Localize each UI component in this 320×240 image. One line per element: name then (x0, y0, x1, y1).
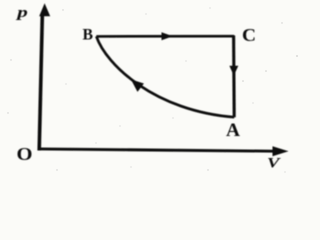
V axis arrowhead (273, 146, 289, 156)
svg-text:p: p (14, 5, 27, 21)
V axis (horizontal axis line) (39, 149, 275, 151)
curve A to B (isotherm-like curve) (96, 36, 234, 117)
p axis (vertical axis line) (39, 16, 42, 151)
svg-text:A: A (226, 121, 241, 141)
svg-text:C: C (242, 25, 256, 45)
arrow on curve pointing toward B (131, 79, 144, 92)
svg-text:B: B (83, 27, 94, 44)
scan speckles (decorative noise) (7, 7, 298, 172)
p axis arrowhead (39, 3, 50, 16)
arrow on B-C line (162, 32, 173, 40)
wire C to A (right isochor line) (232, 36, 236, 118)
wire B to C (top isobar line) (96, 35, 234, 38)
svg-text:O: O (17, 144, 33, 164)
arrow on C-A line (229, 66, 238, 76)
